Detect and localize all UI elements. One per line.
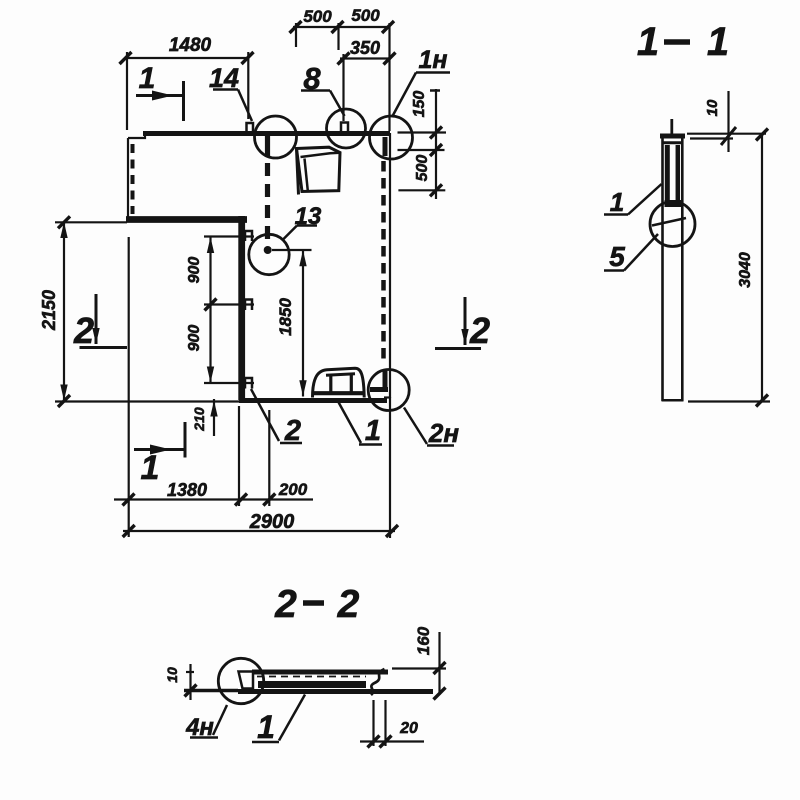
svg-text:1: 1: [365, 415, 381, 447]
svg-text:160: 160: [414, 626, 433, 655]
svg-text:150: 150: [411, 91, 428, 118]
svg-text:350: 350: [350, 38, 380, 58]
svg-text:500: 500: [303, 7, 332, 26]
svg-text:5: 5: [609, 241, 625, 272]
svg-text:200: 200: [278, 480, 308, 499]
svg-text:900: 900: [186, 325, 203, 352]
svg-text:13: 13: [295, 203, 322, 230]
svg-text:2900: 2900: [249, 511, 295, 533]
svg-text:10: 10: [704, 99, 721, 116]
svg-text:2н: 2н: [428, 418, 459, 448]
svg-text:2: 2: [284, 415, 301, 447]
svg-text:3040: 3040: [737, 252, 754, 288]
svg-text:1н: 1н: [418, 46, 447, 74]
svg-text:1: 1: [610, 187, 624, 217]
svg-text:500: 500: [414, 155, 431, 182]
svg-text:2: 2: [274, 583, 297, 626]
svg-text:2150: 2150: [39, 290, 59, 331]
svg-text:900: 900: [186, 257, 203, 284]
svg-text:1480: 1480: [169, 35, 212, 56]
svg-text:1: 1: [139, 62, 156, 95]
svg-text:14: 14: [209, 63, 239, 93]
svg-text:4н: 4н: [185, 714, 214, 741]
svg-text:210: 210: [191, 407, 207, 432]
svg-text:8: 8: [303, 61, 321, 96]
svg-text:1380: 1380: [167, 480, 207, 500]
svg-text:1: 1: [707, 20, 729, 64]
svg-text:2: 2: [337, 583, 360, 626]
svg-text:2: 2: [73, 310, 94, 351]
svg-text:20: 20: [399, 720, 418, 737]
svg-text:10: 10: [164, 667, 180, 683]
svg-text:1850: 1850: [276, 298, 295, 336]
svg-text:2: 2: [469, 310, 490, 351]
svg-text:1: 1: [637, 20, 659, 64]
svg-text:1: 1: [141, 449, 160, 487]
svg-text:1: 1: [257, 709, 275, 745]
svg-text:500: 500: [351, 6, 380, 25]
